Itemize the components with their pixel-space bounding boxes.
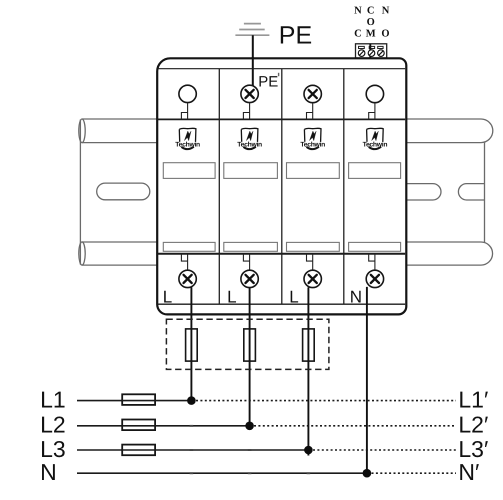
svg-text:PE: PE	[279, 21, 312, 49]
svg-text:PE: PE	[258, 74, 278, 91]
svg-text:Techwin: Techwin	[363, 141, 388, 148]
svg-text:M: M	[366, 28, 376, 39]
svg-text:N: N	[354, 6, 362, 17]
svg-text:C: C	[354, 28, 362, 39]
svg-text:O: O	[381, 28, 389, 39]
svg-text:N′: N′	[458, 459, 479, 485]
svg-text:N: N	[350, 287, 362, 306]
svg-text:C: C	[367, 6, 375, 17]
svg-text:Techwin: Techwin	[175, 141, 200, 148]
svg-text:N: N	[382, 6, 390, 17]
svg-text:L: L	[289, 287, 298, 306]
svg-text:Techwin: Techwin	[300, 141, 325, 148]
svg-text:L2: L2	[40, 412, 66, 438]
svg-text:L3: L3	[40, 436, 66, 462]
svg-text:L1: L1	[40, 387, 66, 413]
svg-text:N: N	[40, 459, 57, 485]
svg-text:L: L	[227, 287, 236, 306]
svg-text:L1′: L1′	[458, 387, 488, 413]
svg-text:L: L	[163, 287, 172, 306]
svg-text:Techwin: Techwin	[237, 141, 262, 148]
svg-text:O: O	[367, 17, 375, 28]
svg-text:L3′: L3′	[458, 436, 488, 462]
svg-text:L2′: L2′	[458, 412, 488, 438]
